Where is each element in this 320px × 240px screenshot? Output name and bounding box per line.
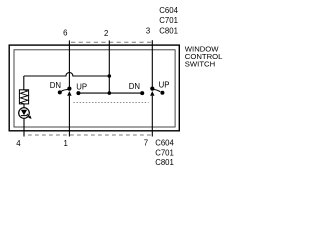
wire pin 4 (LED to bottom): [23, 118, 25, 136]
svg-text:UP: UP: [159, 81, 170, 90]
right switch: DN contact: [140, 91, 144, 95]
left switch: junction node on pin-6 wire: [67, 87, 71, 91]
connector label C604 C701 C801 (bottom): [155, 139, 174, 168]
wire pin 7 (right pole to bottom): [151, 96, 153, 137]
svg-text:6: 6: [63, 28, 67, 37]
connector label C604 C701 C801 (top): [159, 6, 178, 36]
left switch: blade to DN contact: [61, 89, 68, 91]
node: junction on pin-2 wire: [108, 74, 112, 78]
wire pin 3 (top entry): [151, 40, 153, 88]
svg-text:2: 2: [104, 29, 108, 38]
wire: drop from feed line to resistor: [23, 76, 25, 90]
LED indicator lamp: [19, 104, 32, 119]
wire pin 1 (left pole to bottom): [68, 96, 70, 137]
right switch: UP contact: [160, 91, 164, 95]
node: junction on contact bus: [108, 91, 112, 95]
right switch: junction node on pin-3 wire: [150, 87, 154, 91]
wire: link between feed line and contact bus: [108, 76, 110, 93]
wire pin 2 (top entry): [108, 40, 110, 76]
svg-text:UP: UP: [76, 82, 87, 91]
wire pin 6 (top entry): [68, 40, 70, 88]
svg-text:3: 3: [146, 27, 150, 36]
left switch: pole arrow: [67, 91, 71, 96]
left switch: UP contact: [76, 91, 80, 95]
svg-text:C701: C701: [155, 149, 174, 158]
connector dashed line (bottom): [28, 134, 152, 136]
connector dashed line (top, C604/C701/C801): [71, 41, 152, 43]
svg-text:C604: C604: [155, 139, 174, 148]
svg-text:DN: DN: [50, 81, 61, 90]
svg-text:4: 4: [16, 139, 21, 148]
window control switch inner box: [14, 50, 175, 127]
left switch: DN contact: [58, 90, 62, 94]
svg-text:DN: DN: [129, 82, 140, 91]
wire: contact bus (left UP to right DN): [78, 92, 142, 94]
svg-text:C604: C604: [159, 6, 178, 15]
svg-text:SWITCH: SWITCH: [185, 59, 215, 68]
wire: horizontal feed line with hop over pin-6 wire: [24, 73, 110, 77]
right switch: pole arrow: [150, 91, 154, 96]
WINDOW CONTROL SWITCH label: [185, 44, 223, 68]
svg-text:C801: C801: [155, 158, 174, 167]
mechanical linkage dashed line between poles: [73, 102, 148, 104]
resistor (illumination dropping resistor): [19, 90, 28, 104]
svg-text:7: 7: [144, 139, 148, 148]
right switch: blade to UP contact: [153, 90, 160, 92]
svg-text:C801: C801: [159, 27, 178, 36]
svg-text:C701: C701: [159, 16, 178, 25]
window control switch outer box: [9, 45, 179, 131]
svg-text:1: 1: [63, 139, 67, 148]
